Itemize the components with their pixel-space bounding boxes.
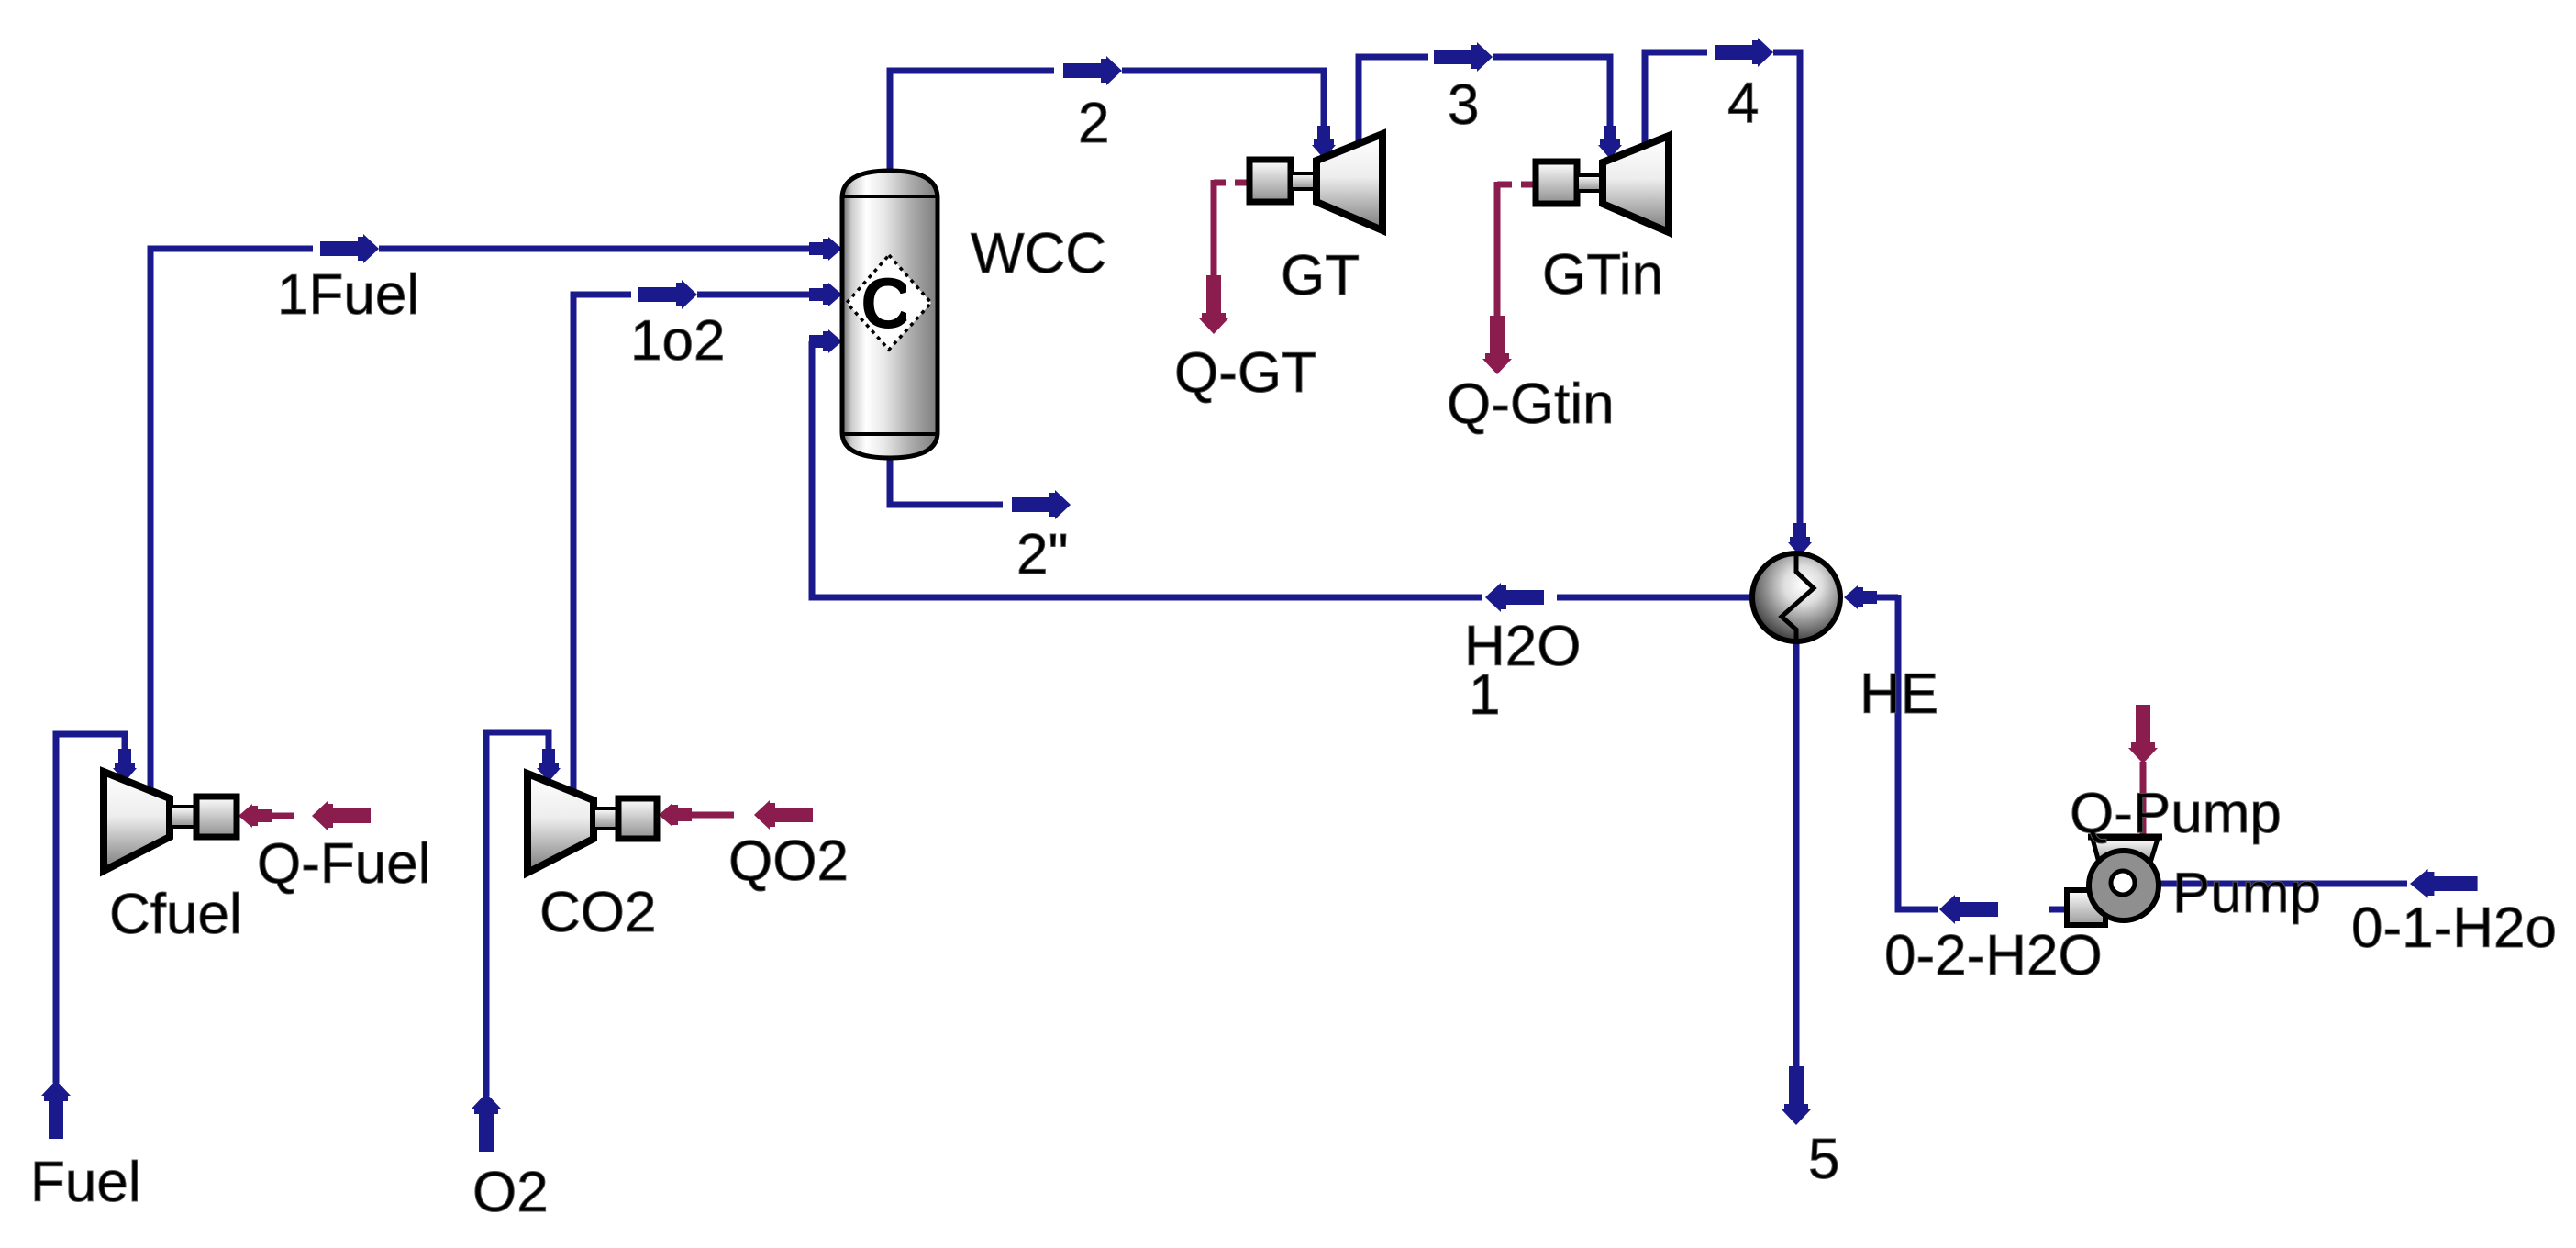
svg-text:GT: GT (1281, 244, 1360, 307)
svg-text:Pump: Pump (2172, 862, 2321, 925)
svg-text:WCC: WCC (971, 222, 1106, 285)
svg-text:Q-Gtin: Q-Gtin (1447, 373, 1615, 436)
svg-text:O2: O2 (472, 1161, 549, 1224)
svg-text:0-2-H2O: 0-2-H2O (1884, 924, 2103, 987)
svg-text:Q-Fuel: Q-Fuel (257, 832, 430, 896)
svg-text:Q-GT: Q-GT (1174, 341, 1316, 405)
svg-text:HE: HE (1860, 663, 1938, 726)
svg-text:1o2: 1o2 (630, 309, 725, 373)
svg-text:1: 1 (1469, 663, 1500, 727)
svg-text:3: 3 (1448, 73, 1479, 137)
svg-text:1Fuel: 1Fuel (277, 263, 419, 327)
svg-text:Q-Pump: Q-Pump (2070, 782, 2282, 845)
svg-text:2": 2" (1016, 523, 1069, 586)
svg-text:2: 2 (1078, 92, 1109, 155)
svg-text:Fuel: Fuel (30, 1151, 141, 1214)
svg-text:4: 4 (1727, 72, 1759, 135)
svg-text:Cfuel: Cfuel (109, 883, 242, 946)
svg-text:5: 5 (1808, 1128, 1839, 1191)
svg-text:GTin: GTin (1542, 243, 1663, 306)
svg-text:QO2: QO2 (728, 830, 849, 893)
svg-text:CO2: CO2 (539, 881, 656, 944)
svg-text:0-1-H2o: 0-1-H2o (2351, 897, 2557, 960)
